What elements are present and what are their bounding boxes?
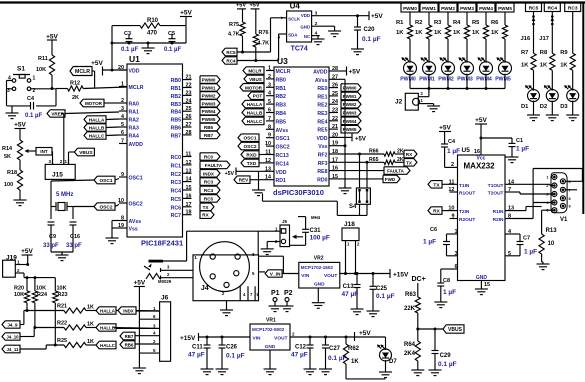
svg-text:D3: D3	[560, 104, 568, 110]
svg-text:FAULTA: FAULTA	[205, 163, 223, 168]
svg-text:INDX: INDX	[123, 309, 134, 314]
svg-text:R2OUT: R2OUT	[459, 217, 475, 223]
svg-text:RC13: RC13	[276, 153, 289, 159]
svg-text:R25: R25	[57, 338, 67, 344]
svg-text:R1: R1	[396, 20, 404, 26]
svg-text:VR1: VR1	[266, 318, 276, 324]
svg-text:AVDD: AVDD	[129, 142, 144, 148]
svg-text:R1IN: R1IN	[493, 209, 504, 215]
svg-text:SCLK: SCLK	[288, 16, 301, 21]
svg-text:RC4: RC4	[171, 189, 181, 195]
svg-text:R20: R20	[14, 286, 24, 292]
svg-text:PWM2: PWM2	[438, 77, 454, 83]
svg-text:RC4: RC4	[204, 188, 214, 193]
svg-text:470: 470	[147, 31, 158, 37]
svg-text:9: 9	[121, 172, 124, 178]
svg-text:5 MHz: 5 MHz	[56, 192, 73, 198]
svg-text:1K: 1K	[491, 30, 499, 36]
svg-text:C9: C9	[49, 234, 56, 240]
svg-text:R62: R62	[348, 346, 360, 352]
svg-text:3: 3	[315, 11, 318, 17]
svg-text:D2: D2	[540, 104, 547, 110]
svg-text:PWM3: PWM3	[202, 101, 216, 106]
svg-text:R64: R64	[404, 342, 416, 348]
svg-text:10: 10	[548, 241, 555, 247]
svg-text:18: 18	[186, 210, 192, 216]
svg-text:Vss: Vss	[129, 227, 138, 233]
svg-text:RB4: RB4	[276, 111, 286, 117]
svg-text:R66: R66	[369, 149, 379, 155]
svg-text:R10: R10	[147, 18, 159, 24]
svg-text:POT: POT	[253, 94, 263, 99]
svg-text:VOUT: VOUT	[274, 336, 287, 342]
svg-text:RC5: RC5	[529, 6, 539, 12]
svg-text:1 µF: 1 µF	[443, 289, 456, 296]
svg-text:RC3: RC3	[171, 180, 181, 186]
svg-text:27: 27	[186, 122, 192, 128]
svg-text:4.7K: 4.7K	[228, 32, 240, 38]
svg-text:0.1 µF: 0.1 µF	[25, 113, 42, 119]
svg-text:MCLR: MCLR	[129, 85, 144, 91]
svg-text:0.1 µF: 0.1 µF	[121, 47, 138, 53]
svg-text:J18: J18	[344, 221, 355, 228]
svg-text:1 µF: 1 µF	[423, 239, 436, 246]
svg-text:5: 5	[508, 251, 511, 257]
svg-text:RD1: RD1	[276, 178, 286, 184]
svg-text:J17: J17	[539, 36, 549, 42]
svg-text:OSC2: OSC2	[243, 144, 256, 150]
svg-text:RE8: RE8	[317, 169, 327, 175]
svg-text:R8: R8	[540, 50, 548, 56]
svg-text:P2: P2	[284, 290, 293, 297]
svg-text:RB1: RB1	[276, 86, 286, 92]
svg-text:RD0: RD0	[317, 177, 327, 183]
svg-text:VBUS: VBUS	[249, 77, 262, 82]
svg-text:33 pF: 33 pF	[66, 243, 82, 249]
svg-text:+5V: +5V	[359, 330, 371, 337]
svg-text:FWD: FWD	[385, 177, 396, 182]
svg-text:RX: RX	[433, 209, 440, 215]
svg-text:R11: R11	[38, 56, 48, 62]
svg-text:0.1 µF: 0.1 µF	[362, 36, 381, 43]
svg-text:PWM0: PWM0	[343, 86, 357, 91]
svg-text:RC3: RC3	[568, 6, 578, 12]
svg-text:R65: R65	[369, 157, 379, 163]
svg-text:1: 1	[121, 82, 124, 88]
svg-text:2: 2	[315, 21, 318, 27]
svg-text:PWM2: PWM2	[202, 93, 216, 98]
svg-text:OSC1: OSC1	[243, 136, 256, 142]
svg-text:8: 8	[268, 124, 271, 130]
svg-text:GND: GND	[314, 281, 325, 287]
svg-text:28: 28	[186, 130, 192, 136]
svg-text:21: 21	[332, 124, 338, 130]
svg-text:MCP1702-1502: MCP1702-1502	[301, 265, 334, 270]
svg-text:VBUS: VBUS	[448, 327, 463, 333]
svg-text:MCLR: MCLR	[276, 69, 291, 75]
svg-text:RC0: RC0	[204, 155, 214, 160]
svg-text:INT: INT	[40, 149, 48, 154]
svg-text:TXD: TXD	[247, 161, 257, 167]
svg-text:1 µF: 1 µF	[524, 249, 537, 256]
svg-text:VR2: VR2	[314, 255, 324, 261]
svg-text:+5V: +5V	[91, 60, 103, 67]
svg-text:9: 9	[569, 204, 571, 208]
svg-text:17: 17	[332, 157, 338, 163]
svg-text:7: 7	[508, 187, 511, 193]
svg-text:+5V: +5V	[249, 3, 259, 9]
svg-text:C13: C13	[343, 284, 355, 290]
svg-text:HALLA: HALLA	[247, 102, 263, 107]
svg-text:10K: 10K	[57, 286, 67, 292]
svg-text:21: 21	[186, 75, 192, 81]
svg-text:33 pF: 33 pF	[43, 243, 59, 249]
svg-text:20: 20	[332, 132, 338, 138]
svg-text:8: 8	[121, 216, 124, 222]
svg-text:RB2: RB2	[276, 94, 286, 100]
svg-text:25: 25	[186, 106, 192, 112]
svg-text:VDD: VDD	[129, 69, 140, 75]
svg-text:PWM5: PWM5	[495, 77, 511, 83]
svg-text:1K: 1K	[87, 339, 94, 345]
svg-text:R63: R63	[405, 292, 417, 298]
svg-text:RC0: RC0	[171, 155, 181, 161]
svg-text:R2IN: R2IN	[493, 217, 504, 223]
svg-text:1: 1	[455, 229, 458, 235]
svg-text:TX: TX	[433, 182, 440, 188]
svg-text:1K: 1K	[521, 63, 529, 69]
svg-text:10K: 10K	[14, 292, 24, 298]
svg-text:RE4: RE4	[317, 119, 327, 125]
svg-text:1K: 1K	[434, 30, 442, 36]
svg-text:VOUT: VOUT	[324, 273, 337, 279]
svg-text:RXD: RXD	[246, 153, 257, 159]
svg-text:1K: 1K	[453, 30, 461, 36]
svg-text:RA3: RA3	[129, 126, 139, 132]
svg-text:U3: U3	[277, 56, 288, 66]
svg-text:1K: 1K	[560, 63, 568, 69]
svg-text:R18: R18	[7, 170, 17, 176]
svg-text:S4: S4	[349, 204, 357, 210]
svg-text:11: 11	[265, 150, 271, 156]
svg-text:12: 12	[448, 187, 454, 193]
svg-text:VDD: VDD	[317, 136, 328, 142]
svg-text:V1: V1	[560, 217, 568, 223]
svg-text:RB6: RB6	[171, 126, 181, 132]
svg-text:10: 10	[265, 141, 271, 147]
svg-text:S1: S1	[17, 66, 25, 73]
svg-text:C27: C27	[329, 346, 341, 352]
svg-text:16: 16	[186, 193, 192, 199]
svg-text:5K: 5K	[4, 154, 11, 160]
svg-text:RE0: RE0	[317, 86, 327, 92]
svg-text:PWM1: PWM1	[422, 6, 436, 11]
svg-text:1K: 1K	[472, 30, 480, 36]
svg-text:47 µF: 47 µF	[291, 352, 308, 359]
svg-text:DC+: DC+	[412, 276, 426, 283]
svg-text:1K: 1K	[540, 63, 548, 69]
svg-text:47 µF: 47 µF	[342, 291, 359, 298]
svg-text:AVss: AVss	[315, 78, 328, 84]
svg-text:RA4: RA4	[129, 134, 139, 140]
svg-text:1 µF: 1 µF	[516, 146, 529, 153]
svg-text:RC2: RC2	[171, 172, 181, 178]
svg-text:PWM5: PWM5	[498, 6, 512, 11]
svg-text:RF3: RF3	[318, 161, 328, 167]
svg-text:1: 1	[546, 176, 548, 180]
svg-text:C6: C6	[430, 227, 437, 233]
svg-text:T1OUT: T1OUT	[488, 183, 504, 189]
svg-text:J2: J2	[395, 99, 403, 106]
svg-text:10K: 10K	[36, 67, 46, 73]
svg-text:AVDD: AVDD	[313, 70, 328, 76]
svg-text:4: 4	[268, 91, 271, 97]
svg-text:9: 9	[268, 133, 271, 139]
svg-text:SDA: SDA	[288, 33, 298, 38]
svg-text:25: 25	[332, 91, 338, 97]
svg-text:dsPIC30F3010: dsPIC30F3010	[273, 188, 324, 197]
svg-text:HALLA: HALLA	[89, 118, 105, 123]
svg-text:U5: U5	[462, 147, 471, 154]
svg-text:2: 2	[451, 162, 454, 168]
svg-text:22: 22	[332, 116, 338, 122]
svg-text:AVss: AVss	[129, 219, 142, 225]
svg-text:RC3: RC3	[204, 180, 214, 185]
svg-text:J4_10: J4_10	[6, 335, 19, 340]
svg-text:MCLR: MCLR	[248, 69, 262, 74]
svg-text:TC74: TC74	[291, 46, 308, 53]
svg-text:P1: P1	[271, 290, 280, 297]
svg-text:J15: J15	[52, 172, 63, 179]
svg-text:R75: R75	[229, 22, 239, 28]
svg-text:10: 10	[118, 198, 124, 204]
svg-text:+5V: +5V	[21, 248, 33, 255]
svg-text:3: 3	[268, 82, 271, 88]
svg-text:C8: C8	[443, 278, 450, 284]
svg-text:HALLB: HALLB	[247, 111, 263, 116]
svg-text:PWM3: PWM3	[457, 77, 473, 83]
svg-text:MH4: MH4	[311, 215, 321, 220]
svg-text:+5V: +5V	[439, 125, 451, 132]
svg-text:HALLB: HALLB	[89, 126, 105, 131]
svg-text:U1: U1	[129, 54, 140, 64]
svg-text:OSC1: OSC1	[99, 178, 112, 184]
svg-text:1K: 1K	[396, 30, 404, 36]
svg-text:26: 26	[332, 83, 338, 89]
svg-text:RC7: RC7	[171, 213, 181, 219]
svg-text:PWM4: PWM4	[202, 109, 216, 114]
svg-text:MCLR: MCLR	[75, 69, 90, 75]
svg-text:R6: R6	[491, 20, 499, 26]
svg-text:23: 23	[332, 108, 338, 114]
svg-text:10K: 10K	[36, 286, 46, 292]
svg-text:RB6: RB6	[204, 125, 214, 130]
svg-text:MOTOR: MOTOR	[245, 85, 263, 90]
svg-text:D1: D1	[521, 104, 529, 110]
svg-text:MOTOR: MOTOR	[85, 101, 103, 106]
svg-text:R21: R21	[57, 304, 67, 310]
svg-text:GND: GND	[476, 275, 488, 281]
svg-text:PWM3: PWM3	[343, 111, 357, 116]
svg-text:RA1: RA1	[129, 110, 139, 116]
svg-text:+5V: +5V	[180, 10, 192, 17]
svg-text:R76: R76	[259, 30, 269, 36]
svg-text:J4: J4	[201, 285, 209, 292]
svg-text:+5V: +5V	[371, 13, 383, 20]
svg-text:MCP1702-5002: MCP1702-5002	[252, 327, 285, 332]
svg-text:7: 7	[121, 139, 124, 145]
svg-text:RA2: RA2	[129, 118, 139, 124]
svg-text:PIC18F2431: PIC18F2431	[141, 239, 183, 248]
svg-text:Vcc: Vcc	[477, 156, 486, 162]
svg-text:+5V: +5V	[46, 34, 58, 41]
svg-text:RE1: RE1	[317, 94, 327, 100]
svg-text:PWM2: PWM2	[441, 6, 455, 11]
svg-text:J16: J16	[521, 36, 531, 42]
svg-text:6: 6	[455, 264, 458, 270]
svg-text:VDD: VDD	[301, 13, 310, 18]
svg-text:C31: C31	[310, 228, 322, 234]
svg-text:RF2: RF2	[318, 153, 328, 159]
svg-text:1K: 1K	[351, 359, 359, 365]
svg-text:HALLA: HALLA	[100, 309, 116, 314]
svg-text:J6: J6	[161, 295, 169, 302]
svg-text:17: 17	[186, 202, 192, 208]
svg-text:22: 22	[186, 83, 192, 89]
svg-text:RB7: RB7	[125, 334, 134, 339]
svg-text:RB3: RB3	[171, 102, 181, 108]
svg-text:C4: C4	[27, 96, 35, 102]
svg-text:VDD: VDD	[276, 170, 287, 176]
svg-text:OSC1: OSC1	[129, 176, 143, 182]
svg-text:20: 20	[118, 65, 124, 71]
svg-text:RC5: RC5	[171, 197, 181, 203]
svg-text:+15V: +15V	[180, 335, 196, 342]
svg-text:PWM0: PWM0	[403, 6, 417, 11]
svg-text:VIN: VIN	[253, 336, 262, 342]
svg-text:+5V: +5V	[14, 122, 26, 129]
svg-text:TX: TX	[406, 160, 413, 165]
svg-text:1K: 1K	[87, 305, 94, 311]
svg-text:GND: GND	[265, 344, 276, 350]
svg-text:RB3: RB3	[276, 103, 286, 109]
svg-text:+15V: +15V	[393, 272, 409, 279]
svg-text:PWM1: PWM1	[202, 86, 216, 91]
svg-text:18: 18	[332, 149, 338, 155]
svg-text:C4: C4	[448, 139, 456, 145]
svg-text:R1OUT: R1OUT	[459, 191, 475, 197]
svg-text:3: 3	[121, 106, 124, 112]
svg-text:RB2: RB2	[171, 94, 181, 100]
svg-text:HALLC: HALLC	[89, 134, 105, 139]
svg-text:HALLB: HALLB	[100, 326, 115, 331]
svg-text:FAULTA: FAULTA	[387, 169, 404, 174]
svg-text:5: 5	[121, 122, 124, 128]
svg-text:3: 3	[455, 251, 458, 257]
svg-text:INDX: INDX	[203, 171, 215, 176]
svg-text:RE5: RE5	[317, 128, 327, 134]
svg-text:22K: 22K	[404, 306, 416, 312]
svg-text:13: 13	[186, 168, 192, 174]
svg-text:TX: TX	[203, 205, 210, 210]
svg-text:PWM3: PWM3	[460, 6, 474, 11]
svg-text:2: 2	[268, 74, 271, 80]
svg-text:R12: R12	[70, 81, 80, 87]
svg-text:4: 4	[121, 114, 124, 120]
svg-text:C26: C26	[226, 345, 238, 351]
svg-text:RX: RX	[202, 213, 209, 218]
svg-text:16: 16	[332, 166, 338, 172]
svg-text:7: 7	[268, 116, 271, 122]
svg-text:R14: R14	[2, 146, 13, 152]
svg-text:RC6: RC6	[171, 205, 181, 211]
svg-text:RC5: RC5	[226, 50, 236, 55]
svg-text:1K: 1K	[87, 322, 94, 328]
svg-text:+5V: +5V	[134, 280, 146, 287]
svg-text:26: 26	[186, 114, 192, 120]
svg-text:15: 15	[186, 185, 192, 191]
svg-text:RE2: RE2	[317, 103, 327, 109]
svg-text:R5: R5	[472, 20, 480, 26]
svg-text:PWM5: PWM5	[343, 127, 357, 132]
svg-text:C25: C25	[376, 286, 388, 292]
svg-text:NC: NC	[304, 34, 311, 39]
svg-text:Vss: Vss	[318, 144, 327, 150]
svg-text:REV: REV	[239, 178, 249, 183]
svg-text:1 µF: 1 µF	[447, 148, 460, 155]
svg-text:RB7: RB7	[204, 133, 214, 138]
svg-text:+5V: +5V	[236, 3, 246, 9]
svg-text:R3: R3	[434, 20, 442, 26]
svg-text:OSC2: OSC2	[99, 205, 112, 211]
svg-text:GND: GND	[300, 25, 310, 30]
svg-text:9: 9	[451, 214, 454, 220]
svg-text:RA0: RA0	[129, 102, 139, 108]
svg-text:V_IN: V_IN	[270, 272, 281, 278]
svg-text:VIN: VIN	[301, 273, 310, 279]
svg-text:12: 12	[186, 160, 192, 166]
svg-text:+5V: +5V	[225, 171, 235, 177]
svg-text:PWM4: PWM4	[479, 6, 493, 11]
svg-text:RE3: RE3	[317, 111, 327, 117]
svg-text:1: 1	[268, 66, 271, 72]
svg-text:OSC2: OSC2	[129, 202, 143, 208]
svg-text:4: 4	[315, 31, 318, 37]
svg-text:23: 23	[186, 90, 192, 96]
svg-text:15: 15	[332, 174, 338, 180]
svg-text:M0029: M0029	[158, 279, 172, 284]
svg-text:J4_11: J4_11	[7, 347, 20, 352]
svg-text:8: 8	[569, 197, 571, 201]
svg-text:27: 27	[332, 74, 338, 80]
svg-text:2: 2	[121, 98, 124, 104]
svg-text:R24: R24	[37, 292, 48, 298]
svg-text:PWM4: PWM4	[343, 119, 357, 124]
svg-text:C1: C1	[516, 138, 523, 144]
svg-text:+5V: +5V	[355, 137, 366, 143]
svg-text:MAX232: MAX232	[464, 162, 496, 171]
svg-text:RB4: RB4	[171, 110, 181, 116]
svg-text:1: 1	[33, 76, 36, 82]
svg-text:PWM0: PWM0	[202, 78, 216, 83]
svg-text:RB5: RB5	[276, 119, 286, 125]
svg-text:11: 11	[449, 179, 455, 185]
svg-text:RC1: RC1	[171, 163, 181, 169]
svg-text:J4_9: J4_9	[7, 323, 18, 328]
svg-text:6: 6	[268, 108, 271, 114]
svg-text:R13: R13	[546, 228, 558, 234]
svg-text:AVss: AVss	[276, 128, 289, 134]
